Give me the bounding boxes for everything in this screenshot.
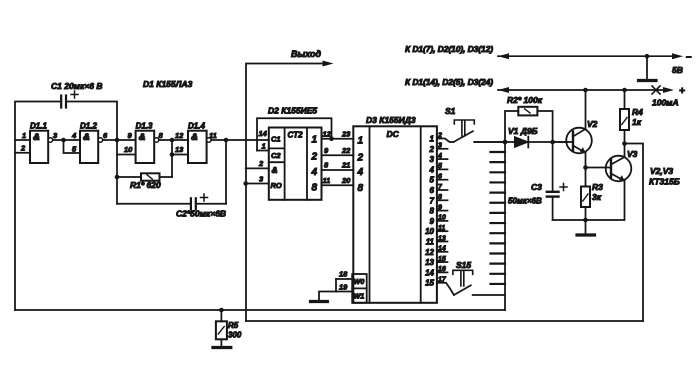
svg-text:12: 12 xyxy=(175,131,184,140)
wire keyboard common bus xyxy=(504,142,506,310)
ground of supply xyxy=(646,56,648,79)
svg-text:9: 9 xyxy=(430,217,435,226)
svg-text:6: 6 xyxy=(430,186,435,195)
svg-text:2: 2 xyxy=(357,153,364,164)
transistor V3 xyxy=(606,156,632,182)
wire V3 emitter to ground net xyxy=(553,181,625,220)
svg-text:2: 2 xyxy=(429,145,435,154)
node junction 6-9 with C1 leg xyxy=(115,138,120,143)
wire D2 pin1 xyxy=(257,150,269,152)
svg-text:КТ315Б: КТ315Б xyxy=(649,177,680,187)
svg-text:11: 11 xyxy=(426,238,435,247)
svg-text:8: 8 xyxy=(312,183,318,194)
svg-text:V2,V3: V2,V3 xyxy=(650,166,673,176)
wire V3 collector xyxy=(624,144,626,158)
counter U-D2 box xyxy=(269,128,322,200)
node junction 3-4 xyxy=(61,138,66,143)
svg-text:14: 14 xyxy=(438,246,446,253)
node junction R4 collector xyxy=(622,141,627,146)
ground for W inputs xyxy=(319,292,336,301)
svg-text:RO: RO xyxy=(271,181,282,190)
svg-text:&: & xyxy=(272,165,278,175)
svg-text:D1.3: D1.3 xyxy=(136,122,153,131)
svg-text:V3: V3 xyxy=(627,149,638,159)
svg-text:С2*50мк×6В: С2*50мк×6В xyxy=(176,209,226,219)
resistor R1 xyxy=(117,176,141,178)
svg-text:22: 22 xyxy=(341,146,351,155)
output arrow Vyhod xyxy=(246,64,327,322)
svg-text:V1 Д9Б: V1 Д9Б xyxy=(508,126,538,136)
svg-text:4: 4 xyxy=(71,131,77,140)
svg-text:2: 2 xyxy=(20,144,26,153)
node junction R3 bottom xyxy=(583,218,588,223)
svg-text:12: 12 xyxy=(323,130,332,139)
svg-text:–: – xyxy=(686,52,692,63)
svg-text:1: 1 xyxy=(430,135,435,144)
svg-text:4: 4 xyxy=(357,167,364,178)
svg-text:4: 4 xyxy=(311,167,318,178)
resistor R5 xyxy=(219,308,224,313)
ground below R5 xyxy=(213,346,231,349)
svg-text:8: 8 xyxy=(438,194,442,201)
wire V2 collector to plus rail xyxy=(585,90,587,129)
node junction reset net xyxy=(243,181,248,186)
resistor R3 xyxy=(585,168,587,187)
svg-text:V2: V2 xyxy=(587,119,598,129)
svg-text:1: 1 xyxy=(358,136,364,147)
node junction diode left xyxy=(503,140,508,145)
svg-text:2: 2 xyxy=(311,152,318,163)
current break mark x xyxy=(652,86,660,94)
svg-text:300: 300 xyxy=(228,331,242,340)
svg-text:R3: R3 xyxy=(592,182,603,192)
capacitor C1 xyxy=(60,96,62,108)
svg-text:3: 3 xyxy=(259,175,264,184)
svg-text:5: 5 xyxy=(438,163,442,170)
svg-text:8: 8 xyxy=(159,131,164,140)
svg-text:10: 10 xyxy=(124,145,133,154)
wire collector net to lower rail xyxy=(625,144,644,322)
svg-text:D1.4: D1.4 xyxy=(188,122,205,131)
svg-text:23: 23 xyxy=(341,130,351,139)
svg-text:DC: DC xyxy=(387,129,400,139)
svg-text:R2* 100к: R2* 100к xyxy=(507,95,543,105)
wire node 11 to D2 pin14 xyxy=(211,139,269,141)
svg-text:4: 4 xyxy=(437,153,442,160)
node junction diode right xyxy=(550,140,555,145)
wire D2 pin3 to reset net xyxy=(246,183,269,185)
svg-text:14: 14 xyxy=(425,268,434,277)
svg-text:&: & xyxy=(191,132,198,143)
svg-text:21: 21 xyxy=(341,161,350,170)
svg-text:6: 6 xyxy=(103,131,108,140)
gate D1.1 xyxy=(30,131,48,163)
wire D2 out 8 to D3 in 4 xyxy=(322,169,354,171)
svg-text:19: 19 xyxy=(339,283,348,292)
diode V1 xyxy=(474,141,567,143)
svg-text:100мА: 100мА xyxy=(652,98,679,108)
svg-text:К D1(14), D2(5), D3(24): К D1(14), D2(5), D3(24) xyxy=(405,77,493,87)
svg-text:W0: W0 xyxy=(354,279,365,286)
wire D1.1 pin2 xyxy=(15,152,30,154)
svg-text:1: 1 xyxy=(312,135,318,146)
resistor R4 xyxy=(622,88,627,93)
svg-text:7: 7 xyxy=(430,196,435,205)
svg-text:11: 11 xyxy=(209,131,217,140)
power net line minus xyxy=(498,55,677,57)
capacitor C2 xyxy=(225,140,227,204)
svg-text:8: 8 xyxy=(358,183,364,194)
svg-text:20: 20 xyxy=(341,176,351,185)
svg-text:C2: C2 xyxy=(271,151,281,160)
svg-text:50мк×6В: 50мк×6В xyxy=(508,197,542,206)
svg-text:R5: R5 xyxy=(228,321,239,330)
wire pin10 branch and RC vertical xyxy=(116,140,118,204)
wire D1.1 pin1 xyxy=(15,139,30,141)
wire D2 pin2 to reset net xyxy=(246,167,269,169)
svg-text:S1: S1 xyxy=(445,106,456,116)
wire lower rail to transistor collector net xyxy=(246,320,643,322)
svg-text:2: 2 xyxy=(258,159,264,168)
svg-text:К D1(7), D2(10), D3(12): К D1(7), D2(10), D3(12) xyxy=(405,44,493,54)
gate D1.3 xyxy=(136,131,155,163)
wire node 8-12 with branch to pin13 xyxy=(159,139,188,141)
svg-text:С1 20мк×6 В: С1 20мк×6 В xyxy=(51,81,102,91)
svg-text:6: 6 xyxy=(438,174,442,181)
svg-text:D1.2: D1.2 xyxy=(80,122,97,131)
svg-text:D2 К155ИЕ5: D2 К155ИЕ5 xyxy=(268,106,317,116)
svg-text:16: 16 xyxy=(438,266,446,273)
switch S15 xyxy=(437,283,454,295)
svg-text:+: + xyxy=(679,86,685,97)
svg-text:4: 4 xyxy=(429,165,435,174)
svg-text:5В: 5В xyxy=(672,65,683,75)
svg-text:Выход: Выход xyxy=(291,49,321,59)
svg-text:9: 9 xyxy=(128,131,133,140)
wire net: C1 top feedback wire and left input vertical xyxy=(15,102,61,311)
wire bottom common rail xyxy=(15,309,505,311)
svg-text:11: 11 xyxy=(438,225,445,232)
svg-text:D1.1: D1.1 xyxy=(30,122,47,131)
svg-text:10: 10 xyxy=(425,227,434,236)
ground below R3 xyxy=(585,220,587,234)
svg-text:C3: C3 xyxy=(531,182,542,192)
svg-text:18: 18 xyxy=(339,270,348,279)
wire D2 out 9 to D3 in 2 xyxy=(322,154,354,156)
svg-text:CT2: CT2 xyxy=(288,131,304,140)
node junction pin12 feedback xyxy=(329,137,334,142)
svg-text:&: & xyxy=(33,132,40,143)
svg-text:5: 5 xyxy=(430,176,435,185)
svg-text:D3 К155ИД3: D3 К155ИД3 xyxy=(366,115,416,125)
svg-text:9: 9 xyxy=(324,146,329,155)
decoder U-D3 box xyxy=(353,126,437,302)
svg-text:12: 12 xyxy=(425,248,434,257)
svg-text:R4: R4 xyxy=(632,107,643,117)
wire pin5 loop xyxy=(64,140,81,153)
svg-text:R1* 620: R1* 620 xyxy=(130,180,161,190)
gate D1.4 xyxy=(188,131,207,163)
svg-text:13: 13 xyxy=(175,145,184,154)
switch S1 xyxy=(437,139,454,143)
node junction gnd tap xyxy=(645,54,650,59)
svg-text:S15: S15 xyxy=(456,260,471,270)
svg-text:8: 8 xyxy=(324,161,329,170)
svg-text:&: & xyxy=(83,132,90,143)
svg-text:3: 3 xyxy=(430,155,435,164)
svg-text:15: 15 xyxy=(438,256,446,263)
svg-text:13: 13 xyxy=(425,258,434,267)
wire node 3-4 with branch to pin5 xyxy=(53,139,80,141)
wire D2 out 11 to D3 in 8 xyxy=(322,184,354,186)
gate D1.2 xyxy=(80,131,98,163)
wire node 6-9 xyxy=(103,139,136,141)
svg-text:10: 10 xyxy=(438,215,446,222)
svg-text:9: 9 xyxy=(438,204,442,211)
svg-text:11: 11 xyxy=(323,176,331,185)
svg-text:13: 13 xyxy=(438,235,446,242)
svg-text:W1: W1 xyxy=(354,294,365,301)
svg-text:15: 15 xyxy=(425,279,434,288)
svg-text:1: 1 xyxy=(262,142,266,151)
svg-text:&: & xyxy=(139,132,146,143)
wire D2 out 12 to D3 in 1 xyxy=(322,138,354,140)
svg-text:8: 8 xyxy=(430,207,435,216)
svg-text:D1 К155ЛА3: D1 К155ЛА3 xyxy=(143,79,193,89)
node junction 11-C2 xyxy=(224,138,229,143)
wire D2 feedback frame pin12 to pin1 xyxy=(257,118,332,150)
svg-text:3: 3 xyxy=(438,143,442,150)
node junction 8-12 xyxy=(170,138,175,143)
capacitor C3 xyxy=(552,142,554,192)
svg-text:3: 3 xyxy=(53,131,58,140)
svg-text:1: 1 xyxy=(22,131,26,140)
power net line plus xyxy=(498,89,668,91)
wire V2 emitter to base V3 xyxy=(585,153,587,168)
svg-text:14: 14 xyxy=(259,129,268,138)
transistor V2 xyxy=(566,128,592,154)
resistor R2 xyxy=(505,111,518,142)
decoder enable W box pins 18 19 xyxy=(352,274,367,303)
svg-text:C1: C1 xyxy=(271,135,281,144)
svg-text:1к: 1к xyxy=(632,117,642,127)
wire pin13 branch xyxy=(171,140,173,177)
svg-text:3к: 3к xyxy=(592,192,602,202)
switch contact ticks S2-S14 xyxy=(491,151,506,153)
